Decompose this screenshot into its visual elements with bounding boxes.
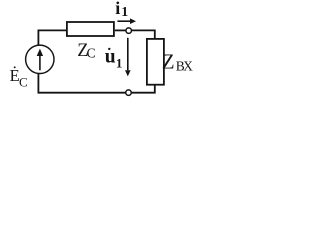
svg-text:1: 1 (121, 5, 128, 20)
resistor Zc (series impedance box) (67, 22, 114, 36)
source arrow (upward) (39, 55, 41, 71)
wire: top node to Zvx top (132, 30, 155, 38)
svg-text:C: C (87, 46, 96, 61)
wire: bottom node back to source (38, 74, 125, 93)
source Ec (circle) (26, 45, 54, 73)
svg-text:Z: Z (162, 49, 175, 73)
node: top terminal circle (126, 28, 132, 33)
wire: Zc to top node (115, 29, 126, 31)
impedance Zvx (input impedance box) (147, 39, 164, 85)
wire: Zvx bottom to bottom node (132, 85, 155, 93)
svg-text:ВХ: ВХ (176, 59, 193, 74)
svg-text:1: 1 (116, 55, 123, 70)
svg-text:C: C (19, 75, 28, 90)
wire: top-left from source up and right to Zc (38, 30, 66, 45)
current arrow i1 (117, 20, 130, 22)
voltage arrow u1 (downward) (127, 38, 129, 71)
label u dot (108, 48, 110, 50)
node: bottom terminal circle (126, 90, 132, 96)
svg-text:i: i (115, 0, 120, 18)
label E dot (14, 66, 16, 68)
